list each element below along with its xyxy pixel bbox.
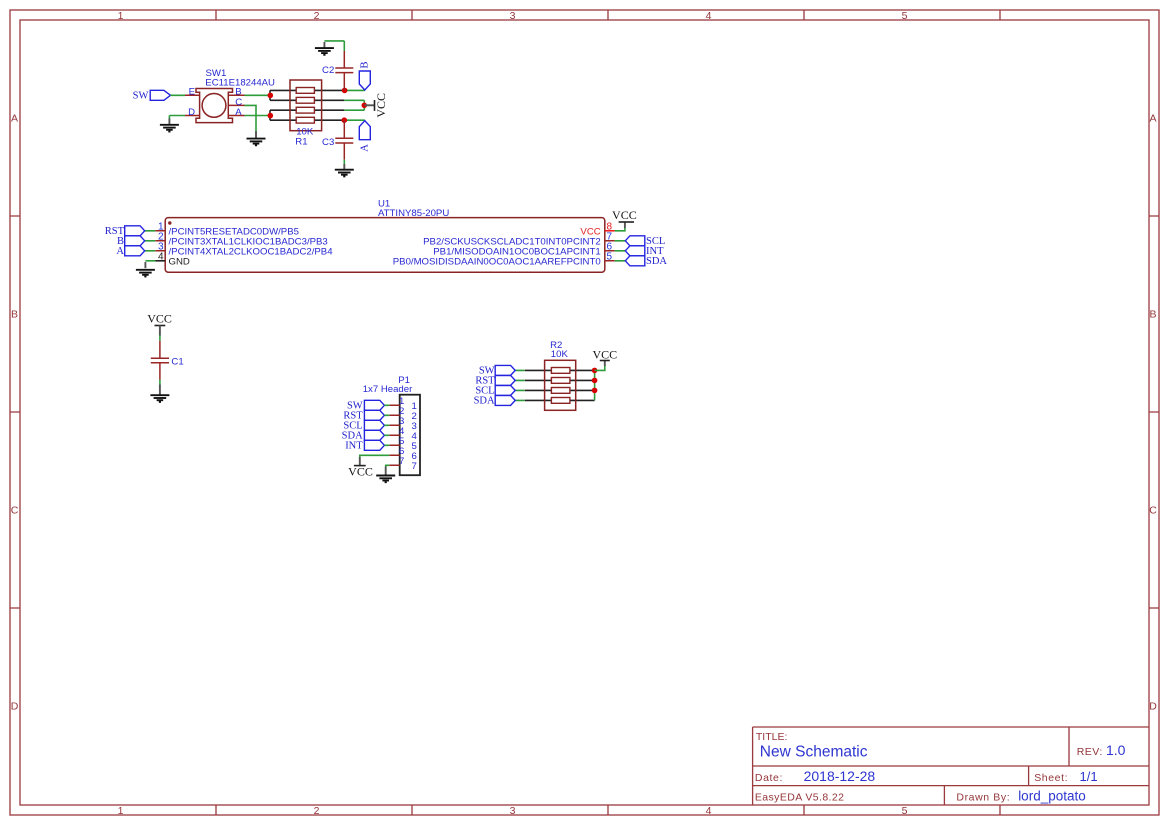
svg-text:A: A [359, 144, 370, 152]
svg-text:C: C [1149, 505, 1157, 517]
svg-text:A: A [11, 113, 18, 125]
svg-text:VCC: VCC [147, 312, 172, 326]
svg-text:5: 5 [902, 805, 908, 817]
svg-text:VCC: VCC [374, 93, 388, 118]
svg-text:2: 2 [314, 10, 320, 22]
svg-text:7: 7 [399, 456, 404, 467]
svg-text:Date:: Date: [755, 772, 783, 784]
svg-text:1: 1 [118, 10, 124, 22]
svg-text:B: B [1149, 309, 1156, 321]
svg-text:INT: INT [345, 440, 363, 451]
svg-text:D: D [1149, 701, 1157, 713]
svg-text:1x7 Header: 1x7 Header [363, 384, 413, 395]
svg-text:VCC: VCC [592, 347, 617, 361]
svg-text:2018-12-28: 2018-12-28 [804, 768, 876, 784]
svg-text:1/1: 1/1 [1080, 769, 1098, 784]
svg-text:Sheet:: Sheet: [1034, 772, 1068, 784]
svg-text:EasyEDA V5.8.22: EasyEDA V5.8.22 [755, 792, 844, 804]
svg-text:10K: 10K [551, 349, 569, 360]
svg-text:4: 4 [706, 10, 712, 22]
svg-text:3: 3 [510, 805, 516, 817]
svg-text:SDA: SDA [474, 395, 495, 406]
svg-text:A: A [235, 107, 242, 118]
svg-text:/PCINT4XTAL2CLKOOC1BADC2/PB4: /PCINT4XTAL2CLKOOC1BADC2/PB4 [169, 246, 334, 257]
svg-text:4: 4 [706, 805, 712, 817]
svg-text:C2: C2 [322, 65, 334, 76]
svg-text:PB0/MOSIDISDAAIN0OC0AOC1AAREFP: PB0/MOSIDISDAAIN0OC0AOC1AAREFPCINT0 [393, 256, 601, 267]
svg-text:D: D [188, 107, 195, 118]
svg-text:3: 3 [510, 10, 516, 22]
svg-text:REV:: REV: [1077, 746, 1103, 758]
svg-text:B: B [11, 309, 18, 321]
svg-text:2: 2 [314, 805, 320, 817]
svg-text:lord_potato: lord_potato [1018, 789, 1086, 804]
svg-text:C: C [11, 505, 19, 517]
svg-text:C1: C1 [171, 357, 183, 368]
svg-text:E: E [189, 87, 195, 98]
svg-text:Drawn By:: Drawn By: [956, 792, 1010, 804]
svg-text:New Schematic: New Schematic [760, 744, 868, 761]
svg-text:A: A [116, 246, 124, 257]
svg-text:GND: GND [169, 256, 190, 267]
svg-text:5: 5 [902, 10, 908, 22]
svg-text:R1: R1 [295, 137, 307, 148]
svg-text:C3: C3 [322, 137, 334, 148]
svg-text:1: 1 [118, 805, 124, 817]
svg-text:VCC: VCC [612, 208, 637, 222]
svg-text:VCC: VCC [348, 465, 373, 479]
svg-text:7: 7 [412, 461, 417, 472]
svg-text:D: D [11, 701, 19, 713]
svg-text:A: A [1149, 113, 1156, 125]
svg-text:SW: SW [133, 90, 149, 101]
svg-text:4: 4 [158, 252, 164, 263]
svg-text:SDA: SDA [646, 256, 667, 267]
svg-text:1.0: 1.0 [1106, 742, 1126, 758]
svg-text:5: 5 [607, 252, 613, 263]
svg-text:TITLE:: TITLE: [756, 731, 788, 743]
svg-text:B: B [359, 61, 370, 68]
